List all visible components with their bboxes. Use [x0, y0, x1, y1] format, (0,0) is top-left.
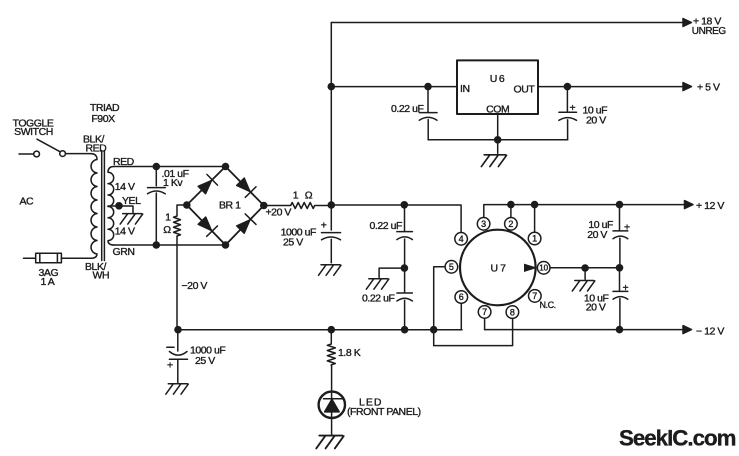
regulator U6 box: [457, 60, 538, 114]
fuse F1 3AG 1A: [36, 253, 62, 263]
svg-text:Ω: Ω: [163, 224, 171, 236]
arrow +12V output: [685, 201, 694, 209]
node U6 input cap tap: [424, 83, 432, 91]
svg-text:2: 2: [508, 219, 513, 229]
node +20V: [328, 201, 336, 209]
svg-text:(FRONT PANEL): (FRONT PANEL): [347, 406, 421, 418]
node pin 2 riser: [507, 201, 515, 209]
svg-text:COM: COM: [486, 104, 509, 116]
node U6 output cap tap: [564, 83, 572, 91]
node 10uF midpoint: [616, 264, 624, 272]
svg-text:− 12 V: − 12 V: [696, 326, 724, 338]
svg-text:0.22 uF: 0.22 uF: [391, 103, 423, 115]
svg-text:3: 3: [481, 219, 486, 229]
wire +5V rail left of U6: [331, 86, 457, 88]
capacitor 0.22uF U6 input: [419, 87, 437, 140]
wire pin 10 to filter node: [550, 267, 620, 269]
node negative rail at LED branch: [328, 326, 336, 334]
node -12V rail cap tap: [616, 326, 624, 334]
arrow +5V output: [683, 83, 692, 91]
svg-text:WH: WH: [93, 270, 110, 282]
svg-text:6: 6: [459, 292, 464, 302]
diode BR1 lower-left: [198, 217, 217, 236]
wire RED secondary top to bridge top: [114, 166, 226, 168]
wire +20V rail to pin 4 of U7: [331, 205, 461, 232]
capacitor 1000uF 25V negative rail: [167, 330, 188, 383]
bridge rectifier BR1 diamond: [187, 167, 264, 246]
node bridge top: [222, 163, 230, 171]
wire -20V vertical: [176, 245, 178, 330]
wire switch to transformer primary: [66, 153, 91, 155]
svg-text:0.22 uF: 0.22 uF: [370, 220, 402, 232]
node +5V rail at riser: [328, 83, 336, 91]
svg-text:8: 8: [510, 307, 515, 317]
svg-text:14 V: 14 V: [115, 226, 135, 238]
svg-text:BR 1: BR 1: [219, 200, 241, 212]
transformer T1 secondary lower winding: [108, 206, 114, 245]
svg-text:OUT: OUT: [514, 83, 536, 95]
svg-text:+: +: [624, 221, 630, 233]
diode BR1 lower-right: [237, 214, 256, 233]
node RED-cap junction: [153, 163, 161, 171]
svg-text:AC: AC: [20, 196, 35, 208]
svg-text:+: +: [570, 102, 576, 114]
node pin 10 ground tap: [581, 264, 589, 272]
pin 10 of U7: [537, 262, 550, 275]
svg-text:14 V: 14 V: [115, 181, 135, 193]
capacitor 10uF 20V positive: [613, 205, 628, 268]
node negative rail at pin 5 crossing: [430, 326, 438, 334]
svg-text:IN: IN: [460, 83, 470, 95]
node 0.22uF pair top tap: [401, 201, 409, 209]
capacitor 10uF 20V U6 output: [559, 87, 577, 140]
arrow -12V output: [683, 326, 692, 334]
node U6 COM junction: [494, 136, 502, 144]
svg-text:1: 1: [532, 234, 537, 244]
node bridge right: [260, 202, 268, 210]
node negative rail at -20V riser: [174, 326, 182, 334]
svg-text:1.8 K: 1.8 K: [338, 347, 361, 359]
svg-text:4: 4: [459, 234, 464, 244]
wire U6 bypass common link: [428, 139, 567, 141]
svg-text:+: +: [623, 282, 629, 294]
pin 7 NC of U7: [529, 290, 542, 303]
resistor 1 ohm filter horizontal: [264, 203, 332, 209]
node negative rail at 0.22uF: [401, 326, 409, 334]
node GRN-cap junction: [153, 241, 161, 249]
svg-text:U6: U6: [490, 73, 506, 85]
svg-text:5: 5: [449, 262, 454, 272]
wire U6 COM lead: [497, 114, 499, 153]
pin 4 of U7: [455, 233, 468, 246]
diode BR1 upper-left: [198, 174, 217, 193]
svg-text:7: 7: [532, 291, 537, 301]
svg-text:F90X: F90X: [91, 113, 115, 125]
svg-text:+20 V: +20 V: [266, 206, 292, 218]
svg-text:SeekIC.com: SeekIC.com: [619, 426, 736, 451]
pin 5 of U7: [445, 261, 458, 274]
svg-text:Ω: Ω: [305, 189, 313, 201]
resistor 1 ohm surge vertical: [174, 205, 187, 245]
transformer T1 primary winding: [91, 154, 98, 259]
wire AC hot lead to toggle switch: [19, 153, 34, 155]
svg-text:25 V: 25 V: [283, 236, 303, 248]
capacitor 0.22uF lower: [397, 268, 413, 330]
svg-text:7: 7: [482, 307, 487, 317]
pin 8 of U7: [506, 306, 519, 319]
arrow U7 output pointer to pin 10: [524, 264, 537, 272]
svg-text:10: 10: [539, 264, 548, 273]
node +12V rail cap tap: [616, 201, 624, 209]
svg-text:1: 1: [293, 189, 299, 201]
svg-text:UNREG: UNREG: [692, 26, 727, 37]
wire +12V rail pins 3-2-1 to arrow: [484, 205, 685, 218]
svg-text:SWITCH: SWITCH: [14, 126, 53, 138]
svg-text:N.C.: N.C.: [540, 300, 556, 310]
wire pin 1 riser: [534, 205, 536, 233]
pin 7 of U7: [478, 306, 491, 319]
ground center tap: [120, 214, 143, 225]
wire pin 7 riser: [484, 318, 486, 329]
transformer T1 core: [102, 151, 105, 261]
node YEL center tap: [115, 202, 123, 210]
ground 1000uF negative rail: [166, 384, 189, 395]
diode BR1 upper-right: [237, 178, 256, 197]
node 0.22uF midpoint: [401, 264, 409, 272]
svg-text:+ 12 V: + 12 V: [696, 200, 724, 212]
svg-text:20 V: 20 V: [587, 229, 607, 241]
wire -12V rail to arrow: [485, 329, 684, 331]
arrow +18V output: [683, 19, 692, 27]
capacitor 1000uF 25V positive rail: [322, 205, 341, 263]
wire ground stub at pin 10 node: [584, 268, 586, 279]
toggle switch S1: [34, 139, 66, 157]
node pin 1 riser: [531, 201, 539, 209]
resistor 1.8K LED dropper: [327, 330, 335, 366]
wire GRN secondary bottom to bridge bottom: [114, 244, 226, 246]
wire common negative rail left section: [178, 329, 462, 331]
transformer T1 secondary upper winding: [108, 167, 114, 207]
svg-text:25 V: 25 V: [195, 355, 215, 367]
ground 0.22uF midpoint: [366, 279, 389, 290]
svg-text:GRN: GRN: [113, 246, 135, 258]
wire 0.22uF midpoint to ground: [379, 268, 404, 277]
svg-text:20 V: 20 V: [586, 115, 606, 127]
svg-text:+: +: [321, 219, 327, 231]
node bridge left: [183, 201, 191, 209]
wire pin 6 riser: [460, 303, 462, 329]
wire secondary center tap YEL to ground: [108, 206, 133, 213]
svg-text:0.22 uF: 0.22 uF: [362, 292, 394, 304]
svg-text:1: 1: [165, 211, 171, 223]
wire pin 5 to negative rail and under-loop to pin 8: [434, 267, 513, 346]
svg-text:RED: RED: [86, 142, 108, 154]
svg-text:1 A: 1 A: [41, 276, 55, 288]
LED D1 front panel: [319, 365, 345, 434]
wire pin 2 riser: [510, 205, 512, 218]
capacitor 10uF 20V negative: [613, 268, 628, 330]
pin 3 of U7: [477, 218, 490, 231]
wire fuse to transformer primary bottom: [61, 257, 90, 259]
svg-text:YEL: YEL: [122, 195, 141, 207]
capacitor 0.22uF upper: [397, 205, 413, 268]
pin 6 of U7: [455, 291, 468, 304]
svg-text:20 V: 20 V: [586, 301, 606, 313]
svg-text:+ 5 V: + 5 V: [697, 82, 720, 94]
wire +20V riser to top rail: [330, 23, 332, 206]
pin 1 of U7: [528, 232, 541, 245]
capacitor .01uF 1Kv across secondary: [148, 167, 166, 246]
ground U6 COM: [481, 155, 506, 167]
wire +18V unregulated rail: [331, 22, 684, 24]
svg-text:1 Kv: 1 Kv: [163, 177, 183, 189]
ground 1000uF positive rail: [319, 265, 342, 276]
svg-text:U 7: U 7: [491, 263, 507, 275]
svg-text:+: +: [167, 359, 173, 371]
svg-text:−20 V: −20 V: [182, 280, 208, 292]
node bridge bottom: [222, 241, 230, 249]
ground LED cathode: [316, 436, 343, 449]
ground pin 10 node: [572, 281, 595, 292]
svg-text:RED: RED: [113, 156, 135, 168]
wire AC neutral lead to fuse: [24, 257, 36, 259]
IC U7 can body: [460, 230, 536, 306]
pin 2 of U7: [505, 218, 518, 231]
wire U6 output to +5V arrow: [538, 86, 684, 88]
